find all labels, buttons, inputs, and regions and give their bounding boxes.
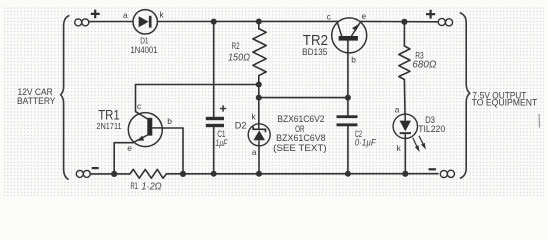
resistor R2 zigzag body <box>253 29 266 75</box>
svg-text:1µF: 1µF <box>215 138 227 148</box>
output bracket right <box>460 13 470 179</box>
wire TR1 collector vertical up <box>135 85 137 112</box>
zener diode D2 <box>248 124 270 146</box>
svg-text:b: b <box>167 116 172 126</box>
output - polarity sign <box>429 168 436 170</box>
junction dot top rail R2 branch <box>256 19 262 25</box>
svg-text:a: a <box>252 147 257 157</box>
svg-text:R2: R2 <box>232 41 240 51</box>
input + terminal circles <box>75 19 89 26</box>
wire top rail left from + input terminal to D1 anode <box>90 21 133 23</box>
junction dot bottom rail TR1 base <box>180 171 186 177</box>
svg-text:(SEE TEXT): (SEE TEXT) <box>273 143 327 153</box>
wire bottom rail left from - input terminal to R1 <box>90 173 130 175</box>
output + terminal circles <box>438 18 452 25</box>
wire TR2 base vertical down to node <box>347 41 349 116</box>
LED D3 TIL220 <box>393 114 417 138</box>
svg-text:BATTERY: BATTERY <box>17 96 56 106</box>
junction dot bottom rail C1 <box>211 171 217 177</box>
wire TR1 collector horizontal to zener node <box>136 84 259 86</box>
wire D3 cathode to bottom rail <box>404 138 406 173</box>
junction dot bottom rail TR1 emitter <box>111 171 117 177</box>
junction dot TR2 base line <box>345 95 351 101</box>
wire C1 branch lower from C1 bottom plate to bottom rail <box>213 127 215 174</box>
svg-text:BZX61C6V8: BZX61C6V8 <box>276 133 326 143</box>
svg-text:e: e <box>362 11 367 21</box>
battery bracket left <box>61 16 70 180</box>
wire C1 branch upper from top rail to C1 top plate <box>213 22 215 117</box>
svg-text:TIL220: TIL220 <box>418 124 445 134</box>
svg-text:1N4001: 1N4001 <box>131 45 158 56</box>
junction dot bottom rail D3 <box>402 171 408 177</box>
transistor TR1 2N1711 <box>128 112 162 147</box>
wire R2 bottom to zener D2 cathode <box>258 75 260 124</box>
svg-text:150Ω: 150Ω <box>228 52 250 63</box>
svg-text:a: a <box>395 105 400 115</box>
wire TR1 base lead horizontal <box>162 127 183 129</box>
svg-text:R1: R1 <box>130 181 138 191</box>
resistor R1 zigzag body <box>130 169 167 178</box>
output + polarity sign <box>426 10 435 19</box>
wire bottom rail from R1 to - output terminal <box>167 173 439 175</box>
input - polarity sign <box>92 167 99 169</box>
svg-text:1·2Ω: 1·2Ω <box>141 181 162 192</box>
svg-text:0·1µF: 0·1µF <box>355 137 376 147</box>
svg-text:2N1711: 2N1711 <box>96 122 122 131</box>
svg-text:c: c <box>327 12 331 22</box>
junction dot top rail R3 branch <box>401 19 407 25</box>
output - terminal circles <box>440 170 454 177</box>
input - terminal circles <box>76 170 90 177</box>
C1 + polarity sign <box>220 105 226 111</box>
svg-text:a: a <box>123 10 128 20</box>
svg-text:D2: D2 <box>235 121 247 132</box>
wire R2 branch from top rail to R2 top <box>258 22 260 30</box>
svg-text:TR1: TR1 <box>98 108 120 123</box>
capacitor C2 <box>337 115 358 126</box>
wire R3 bottom to D3 anode <box>403 80 406 115</box>
wire C2 bottom plate to bottom rail <box>347 126 349 174</box>
svg-text:BZX61C6V2: BZX61C6V2 <box>277 114 324 124</box>
wire top rail right from TR2 emitter to + output terminal <box>361 20 439 22</box>
wire top rail middle from D1 cathode to TR2 collector <box>157 20 338 22</box>
wire TR1 emitter horizontal <box>114 142 132 144</box>
wire TR1 emitter down to bottom rail <box>113 143 115 174</box>
svg-text:BD135: BD135 <box>302 47 327 58</box>
svg-text:680Ω: 680Ω <box>412 59 437 70</box>
junction dot bottom rail D2 <box>256 171 262 177</box>
capacitor C1 <box>206 117 224 127</box>
wire TR2 base branch horizontal to zener node <box>259 97 348 99</box>
stray scan mark right edge <box>538 114 541 128</box>
junction dot TR2 base node at zener column <box>256 95 262 101</box>
svg-text:c: c <box>137 101 141 111</box>
wire R3 branch from top rail to R3 top <box>403 22 405 46</box>
input + polarity sign <box>91 10 100 19</box>
diode D1 1N4001 <box>133 10 157 34</box>
transistor TR2 BD135 <box>332 18 367 53</box>
LED light arrow 1 <box>413 138 420 152</box>
svg-text:e: e <box>127 143 132 153</box>
junction dot top rail C1 branch <box>211 19 217 25</box>
wire TR1 base branch down to bottom rail <box>182 128 184 174</box>
junction dot bottom rail C2 <box>345 171 351 177</box>
svg-text:b: b <box>351 55 356 65</box>
resistor R3 zigzag body <box>399 46 410 80</box>
svg-text:TO EQUIPMENT: TO EQUIPMENT <box>472 98 538 108</box>
LED light arrow 2 <box>419 136 426 150</box>
junction dot collector node at zener column <box>256 82 262 88</box>
wire D2 anode to bottom rail <box>258 146 260 174</box>
